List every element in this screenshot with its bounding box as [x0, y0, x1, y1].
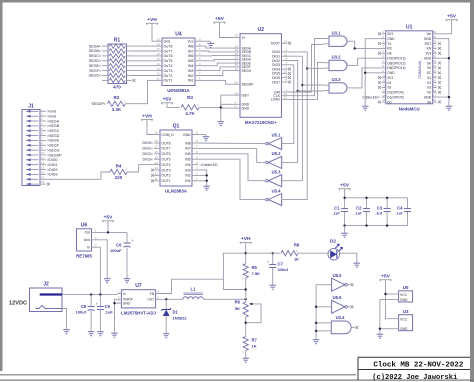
svg-text:R4: R4 — [116, 163, 122, 168]
svg-text:21: 21 — [433, 74, 437, 78]
svg-text:GND: GND — [400, 327, 408, 331]
svg-text:OUT8: OUT8 — [162, 141, 171, 145]
svg-text:SEGC<: SEGC< — [89, 54, 101, 58]
svg-text:U5.6: U5.6 — [333, 295, 343, 300]
svg-text:10: 10 — [155, 131, 159, 135]
svg-text:100uf: 100uf — [76, 310, 87, 315]
svg-text:U3.2: U3.2 — [332, 55, 342, 60]
svg-text:18: 18 — [433, 89, 437, 93]
svg-text:U4: U4 — [175, 32, 182, 38]
svg-text:UDN2981A: UDN2981A — [167, 88, 190, 93]
svg-text:12: 12 — [382, 84, 386, 88]
and-gate U3.2 — [329, 60, 347, 70]
svg-text:.1uf: .1uf — [354, 211, 362, 216]
wire R3 to U2 ISET — [199, 95, 234, 107]
wire U7 ON-OF GND to ground — [115, 299, 118, 331]
svg-text:FB: FB — [150, 292, 154, 296]
no-connect U1 left — [378, 86, 381, 89]
wire Q1 IN6 to U5.3 — [198, 154, 264, 181]
capacitor C4 — [404, 208, 411, 210]
svg-text:SC: SC — [427, 71, 432, 75]
capacitor C8 100uf — [90, 295, 92, 307]
svg-text:15: 15 — [155, 155, 159, 159]
wire U6 In down — [97, 247, 100, 294]
svg-text:>SEGC: >SEGC — [47, 129, 60, 133]
wire R1 to U4 OuT3 — [132, 70, 156, 72]
no-connect U1 right — [438, 62, 441, 65]
svg-text:+VH: +VH — [241, 236, 251, 242]
svg-text:U6: U6 — [81, 222, 88, 228]
svg-text:R3: R3 — [187, 95, 193, 100]
svg-text:+5V: +5V — [215, 16, 225, 22]
buffer U5.5 — [332, 278, 345, 291]
svg-text:3V3: 3V3 — [387, 76, 393, 80]
and-gate U3.3 — [329, 83, 347, 93]
svg-text:OUT1: OUT1 — [162, 179, 171, 183]
svg-text:11: 11 — [155, 177, 158, 181]
capacitor C7 330uf — [272, 253, 274, 264]
svg-text:12: 12 — [41, 161, 45, 165]
svg-text:.1uf: .1uf — [395, 211, 403, 216]
svg-text:SEGG<: SEGG< — [89, 74, 101, 78]
svg-text:GND: GND — [424, 95, 432, 99]
svg-text:U5.2: U5.2 — [272, 151, 282, 156]
svg-text:R2: R2 — [113, 95, 119, 100]
svg-text:(c)2022 Joe Jaworski: (c)2022 Joe Jaworski — [372, 374, 457, 382]
svg-text:14: 14 — [382, 93, 386, 97]
capacitor C2 — [363, 208, 370, 210]
svg-text:D7(GPIO13): D7(GPIO13) — [387, 57, 405, 61]
svg-text:24: 24 — [284, 39, 288, 43]
svg-text:1K: 1K — [252, 344, 257, 349]
svg-text:15: 15 — [157, 57, 161, 61]
wire unused-input rail — [315, 285, 317, 338]
svg-text:D5(GPIO14): D5(GPIO14) — [387, 66, 405, 70]
svg-text:VCC: VCC — [400, 293, 408, 297]
svg-text:14: 14 — [41, 171, 45, 175]
svg-text:SEGB<: SEGB< — [89, 49, 101, 53]
svg-text:Vin: Vin — [426, 32, 431, 36]
svg-text:13: 13 — [41, 166, 45, 170]
svg-text:In: In — [123, 292, 126, 296]
svg-text:>SEGA: >SEGA — [47, 119, 60, 123]
svg-text:17: 17 — [157, 47, 161, 51]
svg-text:17: 17 — [155, 145, 159, 149]
svg-text:(TOM4946): (TOM4946) — [418, 61, 422, 79]
svg-text:GND: GND — [387, 37, 395, 41]
no-connect U1 right — [438, 91, 441, 94]
svg-text:1N5822: 1N5822 — [173, 316, 188, 321]
wire bus CLK — [288, 39, 324, 96]
svg-text:SEGD<: SEGD< — [89, 59, 101, 63]
svg-text:13: 13 — [382, 89, 386, 93]
no-connect U1 right — [438, 71, 441, 74]
svg-text:470: 470 — [113, 85, 121, 90]
wire R5 to R6 — [245, 278, 247, 302]
svg-text:C8: C8 — [81, 304, 87, 309]
svg-text:U3.4: U3.4 — [336, 315, 346, 320]
no-connect U1 right — [438, 76, 441, 79]
svg-text:OuT8: OuT8 — [164, 44, 173, 48]
svg-text:R8: R8 — [294, 243, 300, 248]
svg-text:+5V: +5V — [163, 97, 173, 103]
svg-text:U3.1: U3.1 — [332, 30, 342, 35]
svg-text:U3: U3 — [403, 309, 409, 314]
wire bus DIG0-U5.4 — [284, 52, 308, 200]
svg-text:S2: S2 — [427, 81, 431, 85]
svg-text:IN8: IN8 — [188, 44, 194, 48]
wire R1 to U4 OuT7 — [132, 50, 156, 52]
svg-text:10: 10 — [41, 151, 45, 155]
wire bus DIG1-U5.3 — [284, 56, 303, 181]
wire U4 IN2 to U2 seg — [201, 71, 234, 76]
svg-text:+5V: +5V — [447, 14, 457, 20]
svg-text:12: 12 — [284, 96, 288, 100]
wire R1 to U4 OuT5 — [132, 60, 156, 62]
wire D2 to ground — [339, 253, 357, 261]
wire R1 to U4 OuT4 — [132, 65, 156, 67]
svg-text:Clock MB 22-NOV-2022: Clock MB 22-NOV-2022 — [373, 362, 464, 370]
svg-text:SEGDP<: SEGDP< — [91, 102, 106, 106]
no-connect U1 left — [378, 52, 381, 55]
svg-text:Gnd: Gnd — [84, 238, 91, 242]
svg-text:IN2: IN2 — [188, 74, 194, 78]
svg-text:VCC: VCC — [400, 317, 408, 321]
svg-text:5K: 5K — [235, 306, 240, 311]
wire U4 IN8 to U2 seg — [201, 46, 234, 48]
svg-text:3V3: 3V3 — [387, 32, 393, 36]
inverter U5.4 — [268, 194, 281, 206]
wire bus DIG2-U5.2 — [284, 61, 298, 163]
svg-text:+: + — [267, 260, 270, 265]
wire U7 FB loop — [160, 253, 246, 293]
wire Q1 IN8 to U5.1 — [198, 142, 264, 145]
wire R1 to U4 OuT8 — [132, 45, 156, 47]
wire bus DIG3-U5.1 — [284, 65, 294, 144]
svg-text:22: 22 — [433, 69, 437, 73]
no-connect U1 right — [438, 42, 441, 45]
svg-text:220: 220 — [115, 175, 123, 180]
potentiometer R6 5K — [243, 302, 248, 317]
wire R6 to R7 — [245, 317, 247, 336]
svg-text:>DIG3: >DIG3 — [47, 173, 58, 177]
svg-text:OuT2: OuT2 — [164, 74, 173, 78]
svg-text:13: 13 — [155, 166, 159, 170]
svg-text:12: 12 — [157, 72, 161, 76]
svg-text:D1(GPIO5): D1(GPIO5) — [387, 95, 404, 99]
svg-text:20: 20 — [433, 79, 437, 83]
wire Q1 IN3-IN1 to ground — [198, 170, 207, 184]
svg-text:SEGG: SEGG — [242, 69, 252, 73]
wire U3.1 out to U1 RX — [352, 41, 382, 48]
svg-text:D2: D2 — [330, 239, 336, 245]
svg-text:R7: R7 — [252, 338, 258, 343]
svg-text:12: 12 — [155, 172, 159, 176]
svg-text:15: 15 — [41, 175, 45, 179]
svg-text:U1: U1 — [406, 24, 413, 30]
wire U4 Vcc to ground — [201, 40, 211, 42]
power block U5 — [399, 291, 413, 302]
wire R7 to ground — [245, 351, 247, 357]
svg-text:C6: C6 — [116, 243, 122, 248]
svg-text:->CableLED: ->CableLED — [199, 163, 218, 167]
svg-text:DIG1<: DIG1< — [143, 147, 154, 151]
svg-text:OUT7: OUT7 — [162, 147, 171, 151]
svg-text:+5V: +5V — [340, 183, 350, 189]
connector J2 barrel jack — [30, 288, 63, 312]
svg-text:NodeMCU: NodeMCU — [399, 106, 420, 111]
no-connect U1 right — [438, 86, 441, 89]
no-connect U1 left — [378, 101, 381, 104]
svg-text:OUT3: OUT3 — [162, 168, 171, 172]
wire U4 IN7 to U2 seg — [201, 50, 234, 53]
no-connect U2 DIG — [288, 76, 291, 79]
inverter U5.2 — [268, 156, 281, 168]
svg-text:IN4: IN4 — [188, 64, 194, 68]
wire U4 IN3 to U2 seg — [201, 67, 234, 71]
no-connect U1 left — [378, 32, 381, 35]
svg-text:>SEGD: >SEGD — [47, 134, 60, 138]
svg-text:>SEGG: >SEGG — [47, 148, 60, 152]
wire bus DIN — [288, 45, 324, 93]
wire L1 to +VH node — [203, 298, 245, 300]
svg-text:14: 14 — [155, 161, 159, 165]
svg-text:.1uF: .1uF — [105, 310, 114, 315]
svg-text:16: 16 — [41, 180, 45, 184]
capacitor C3 — [384, 208, 391, 210]
svg-text:+VH: +VH — [142, 113, 152, 119]
svg-text:27: 27 — [433, 45, 437, 49]
wire U6 Gnd to ground — [97, 240, 107, 277]
no-connect U1 right — [438, 101, 441, 104]
svg-text:S0: S0 — [427, 66, 431, 70]
svg-text:GND: GND — [400, 298, 408, 302]
svg-text:COM_D: COM_D — [162, 133, 175, 137]
inverter U5.1 — [268, 138, 281, 150]
wire U1 GND rail left — [365, 39, 382, 104]
svg-text:>SEGDP: >SEGDP — [47, 153, 62, 157]
wire Q1 IN7 to U5.2 — [198, 148, 264, 162]
regulator U6 RE7685 — [77, 229, 92, 251]
svg-text:25: 25 — [433, 54, 437, 58]
LED D2 — [328, 248, 340, 260]
connector J1 — [22, 110, 40, 186]
svg-text:OuT5: OuT5 — [164, 59, 173, 63]
capacitor C9 .1uF — [99, 295, 101, 307]
wire U7 OUT node — [160, 298, 183, 300]
wire R1 to U4 OuT2 — [132, 75, 156, 77]
svg-text:J2: J2 — [43, 282, 49, 288]
svg-text:IN5: IN5 — [185, 158, 190, 162]
svg-text:J1: J1 — [28, 104, 34, 110]
svg-text:11: 11 — [157, 77, 160, 81]
wire R1 to U4 OuT6 — [132, 55, 156, 57]
svg-text:3V3: 3V3 — [425, 52, 431, 56]
svg-text:LM2575HVT-ADJ: LM2575HVT-ADJ — [121, 310, 156, 315]
svg-text:>Gnd: >Gnd — [47, 115, 56, 119]
svg-text:OUT: OUT — [147, 298, 154, 302]
svg-text:IN7: IN7 — [185, 147, 190, 151]
svg-text:OuT4: OuT4 — [164, 64, 173, 68]
svg-text:IN6: IN6 — [188, 54, 194, 58]
svg-text:23: 23 — [433, 64, 437, 68]
svg-text:1K: 1K — [294, 257, 299, 262]
display driver U2 MAX7219CNG+ — [240, 34, 282, 118]
svg-text:MAX7219CNG+: MAX7219CNG+ — [245, 120, 277, 125]
svg-text:U7: U7 — [135, 283, 142, 289]
no-connect Q1 OUT — [151, 169, 154, 172]
wire J1 pin15 to R4 — [46, 172, 110, 179]
svg-text:U2: U2 — [258, 27, 265, 33]
no-connect U2 DIG — [288, 72, 291, 75]
svg-text:LOAD: LOAD — [271, 98, 281, 102]
svg-text:D2(GPIO4): D2(GPIO4) — [387, 91, 404, 95]
svg-text:17: 17 — [235, 67, 239, 71]
capacitor C6 100uF — [124, 242, 131, 244]
svg-text:15: 15 — [382, 98, 386, 102]
svg-text:GND: GND — [424, 37, 432, 41]
svg-text:.1uf: .1uf — [375, 211, 383, 216]
svg-text:IN3: IN3 — [188, 69, 194, 73]
svg-text:Gnd: Gnd — [164, 40, 171, 44]
svg-text:U5.1: U5.1 — [272, 132, 282, 137]
svg-text:ULN2883A: ULN2883A — [165, 189, 188, 194]
svg-text:S1: S1 — [427, 76, 431, 80]
wire U2 GND pins to ground — [221, 103, 234, 105]
svg-text:11: 11 — [382, 79, 385, 83]
buffer U5.6 — [332, 300, 345, 313]
svg-text:S4: S4 — [387, 81, 391, 85]
wire Q1 GND to ground — [198, 134, 206, 136]
resistor network R1 470 — [108, 44, 127, 84]
diode D1 1N5822 — [165, 299, 167, 309]
svg-text:SOUT: SOUT — [271, 42, 280, 46]
wire J2 pin2 to ground — [62, 309, 67, 328]
svg-text:7.5K: 7.5K — [252, 271, 261, 276]
svg-text:26: 26 — [433, 50, 437, 54]
wire R4 out to Q1 OUT4 — [127, 165, 154, 172]
no-connect U1 left — [378, 76, 381, 79]
svg-text:.1uf: .1uf — [332, 211, 340, 216]
svg-text:R5: R5 — [252, 265, 258, 270]
svg-text:12VDC: 12VDC — [9, 301, 27, 307]
svg-text:D1: D1 — [173, 310, 179, 315]
svg-text:A0: A0 — [427, 100, 431, 104]
svg-text:SEGA<: SEGA< — [89, 44, 101, 48]
svg-text:11: 11 — [41, 156, 44, 160]
no-connect U1 right — [438, 47, 441, 50]
svg-text:>DIG2: >DIG2 — [47, 168, 58, 172]
wire U3.2 out to U1 D7 — [352, 58, 382, 65]
no-connect Q1 OUT — [151, 179, 154, 182]
driver U4 UDN2981A — [162, 38, 195, 86]
svg-text:22: 22 — [235, 80, 239, 84]
svg-text:OUT2: OUT2 — [162, 174, 171, 178]
svg-text:In: In — [87, 246, 90, 250]
svg-text:16: 16 — [433, 98, 437, 102]
svg-text:GND: GND — [123, 302, 131, 306]
svg-text:S3: S3 — [387, 86, 391, 90]
svg-text:16: 16 — [155, 150, 159, 154]
svg-text:SEGF<: SEGF< — [89, 69, 101, 73]
svg-text:C9: C9 — [105, 304, 111, 309]
svg-text:D8: D8 — [387, 52, 391, 56]
no-connect U2 DIG — [288, 81, 291, 84]
svg-text:>DIG1: >DIG1 — [47, 163, 58, 167]
svg-text:V+: V+ — [242, 36, 246, 40]
svg-text:10: 10 — [157, 37, 161, 41]
svg-text:>SEGB: >SEGB — [47, 124, 60, 128]
no-connect J1 pin16 — [47, 183, 50, 186]
svg-text:10: 10 — [382, 74, 386, 78]
svg-text:16: 16 — [157, 52, 161, 56]
svg-text:S3: S3 — [427, 86, 431, 90]
and-gate U3.1 — [329, 36, 347, 46]
svg-text:OuT3: OuT3 — [164, 69, 173, 73]
capacitor C1 — [341, 208, 348, 210]
wire U1 GND rail right — [437, 39, 449, 104]
svg-text:3.3K: 3.3K — [112, 107, 122, 112]
no-connect U1 right — [438, 81, 441, 84]
svg-text:29: 29 — [433, 35, 437, 39]
svg-text:IN1: IN1 — [188, 79, 194, 83]
svg-text:RE7685: RE7685 — [76, 254, 92, 259]
wire R2 to U4 OuT1 — [125, 80, 156, 103]
svg-text:R6: R6 — [235, 300, 241, 305]
svg-text:SEGE<: SEGE< — [89, 64, 101, 68]
svg-text:C7: C7 — [278, 262, 284, 267]
svg-text:DIG3<: DIG3< — [143, 157, 154, 161]
svg-text:IN5: IN5 — [188, 59, 194, 63]
svg-text:OuT7: OuT7 — [164, 49, 173, 53]
no-connect U1 right — [438, 67, 441, 70]
svg-text:13: 13 — [157, 67, 161, 71]
no-connect U1 left — [378, 81, 381, 84]
svg-text:OuT1: OuT1 — [164, 79, 173, 83]
and-gate U3.4 — [331, 321, 351, 334]
svg-text:Out: Out — [85, 231, 91, 235]
no-connect U1 right — [438, 52, 441, 55]
wire blocks GND to ground — [380, 300, 395, 332]
svg-text:+5V: +5V — [104, 215, 114, 221]
svg-text:330uf: 330uf — [278, 267, 289, 272]
no-connect U2 DIG — [288, 68, 291, 71]
svg-text:24: 24 — [433, 59, 437, 63]
svg-text:IN2: IN2 — [185, 174, 190, 178]
svg-text:U5.5: U5.5 — [333, 273, 343, 278]
svg-text:VU: VU — [427, 91, 432, 95]
wire U4 IN4 to U2 seg — [201, 63, 234, 66]
svg-text:Vcc: Vcc — [188, 40, 194, 44]
svg-text:18: 18 — [235, 91, 239, 95]
svg-text:4.7K: 4.7K — [185, 111, 195, 116]
svg-text:IN1: IN1 — [185, 179, 190, 183]
inductor L1 — [183, 297, 188, 300]
svg-text:IN8: IN8 — [185, 141, 190, 145]
svg-text:+VH: +VH — [147, 17, 157, 23]
svg-text:L1: L1 — [191, 287, 197, 292]
svg-text:U3.3: U3.3 — [332, 77, 342, 82]
svg-text:GND: GND — [424, 57, 432, 61]
svg-text:RX: RX — [387, 47, 392, 51]
wire Q1 IN5 to U5.4 — [198, 159, 264, 199]
svg-text:17: 17 — [433, 93, 437, 97]
svg-text:18: 18 — [157, 42, 161, 46]
svg-text:IN4: IN4 — [185, 163, 190, 167]
svg-text:D6(GPIO12): D6(GPIO12) — [387, 61, 405, 65]
svg-text:+5V: +5V — [381, 274, 391, 280]
svg-text:EN: EN — [427, 47, 432, 51]
